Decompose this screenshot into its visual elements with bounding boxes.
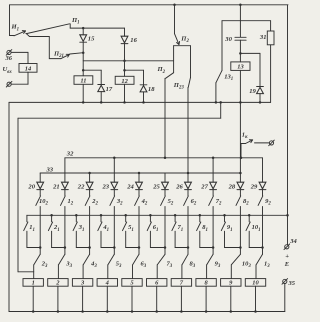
wire diode19 to rail bbox=[259, 94, 261, 103]
node bus33 junction bbox=[138, 172, 141, 175]
wire column 7 upper bbox=[187, 173, 189, 182]
switch 7-1 branch bbox=[174, 215, 176, 222]
wire column 5 from bus bbox=[138, 173, 140, 182]
switch 4-2 bbox=[135, 196, 140, 206]
bus 32 bbox=[65, 157, 263, 159]
switch 4-1 branch bbox=[100, 215, 102, 222]
wire 3-1 lower bbox=[75, 231, 77, 247]
switch 13-1 bbox=[221, 21, 223, 71]
wire diode 24 to switch bbox=[138, 190, 140, 196]
box 4 bbox=[97, 279, 117, 287]
wire column 7 to node bbox=[187, 207, 189, 248]
diode 27 bbox=[210, 182, 217, 189]
wire box 5 to bottom bus bbox=[131, 286, 133, 311]
switch 1-3 feed bbox=[262, 248, 264, 255]
node P21-diode15 junction bbox=[82, 51, 85, 54]
svg-text:18: 18 bbox=[148, 86, 155, 93]
bus 33 bbox=[40, 172, 240, 174]
svg-text:3: 3 bbox=[80, 280, 85, 287]
switch 8-1 bbox=[197, 222, 201, 231]
wire diode 22 to switch bbox=[89, 190, 91, 196]
wire channel1 return link bbox=[18, 271, 34, 273]
switch 3-1 bbox=[73, 222, 77, 231]
switch 7-3 feed bbox=[164, 248, 166, 255]
wire box 8 to bottom bus bbox=[205, 286, 207, 311]
switch 10-3 feed bbox=[239, 248, 241, 255]
wire 13-1 to rail bbox=[215, 83, 217, 103]
wire diode 20 to switch bbox=[39, 190, 41, 196]
wire column 5 to node bbox=[138, 207, 140, 248]
switch 9-1 branch bbox=[224, 215, 226, 222]
wire box 9 to bottom bus bbox=[230, 286, 232, 311]
wire to box 8 bbox=[206, 265, 208, 279]
svg-text:24: 24 bbox=[126, 183, 134, 190]
switch 10-1 bbox=[246, 222, 250, 231]
diode 15 bbox=[82, 28, 84, 35]
terminal Ik bbox=[269, 141, 273, 145]
switch 9-3 bbox=[207, 254, 213, 264]
wire common rail bbox=[9, 101, 271, 103]
node bus middle ch4 bbox=[100, 214, 103, 217]
switch 2-3 feed bbox=[39, 248, 41, 255]
switch P2 blade bbox=[175, 34, 180, 45]
svg-text:34: 34 bbox=[289, 238, 297, 245]
wire box 3 to bottom bus bbox=[82, 286, 84, 311]
wire P22 branch bbox=[173, 46, 175, 73]
switch 2-1 bbox=[48, 222, 52, 231]
switch 6-2 bbox=[184, 196, 189, 206]
wire P21 output bbox=[70, 53, 83, 54]
box 1 bbox=[23, 279, 43, 287]
wire to diode19 bbox=[240, 52, 260, 54]
svg-text:15: 15 bbox=[88, 36, 95, 43]
node bus middle ch5 bbox=[124, 214, 127, 217]
switch 10-2 bbox=[36, 196, 41, 206]
svg-text:33: 33 bbox=[46, 166, 54, 173]
wire column 8 to node bbox=[212, 207, 214, 248]
node bus middle ch7 bbox=[174, 214, 177, 217]
switch 1-2 bbox=[61, 196, 66, 206]
diode 23 bbox=[111, 182, 118, 189]
svg-text:28: 28 bbox=[228, 183, 236, 190]
node bus middle ch1 bbox=[26, 214, 28, 216]
wire column 1 to node bbox=[39, 207, 41, 248]
node bus middle ch10 bbox=[248, 214, 251, 217]
switch 3-2 bbox=[110, 196, 115, 206]
svg-text:29: 29 bbox=[250, 183, 258, 190]
switch 6-1 bbox=[147, 222, 151, 231]
wire diode 23 to switch bbox=[113, 190, 115, 196]
diode 17 bbox=[98, 85, 105, 91]
wire input top bbox=[11, 51, 28, 53]
switch 6-1 branch bbox=[149, 215, 151, 222]
wire column 6 to node bbox=[164, 207, 166, 248]
diode 22 bbox=[86, 182, 93, 189]
svg-text:35: 35 bbox=[288, 280, 296, 287]
node bus33 junction bbox=[88, 172, 91, 175]
node bus32 junction bbox=[113, 157, 116, 160]
switch 7-3 bbox=[157, 254, 165, 264]
box 3 bbox=[72, 279, 92, 287]
wire column 2 from bus bbox=[64, 158, 66, 182]
switch 3-1 branch bbox=[75, 215, 77, 222]
wire diode 27 to switch bbox=[212, 190, 214, 196]
wire 7-1 lower bbox=[174, 231, 176, 247]
switch P23 blade bbox=[188, 78, 190, 88]
svg-text:27: 27 bbox=[200, 183, 208, 190]
switch Ik bbox=[240, 144, 242, 158]
switch 9-2 bbox=[258, 196, 263, 206]
wire to box 6 bbox=[156, 265, 158, 279]
node box11 feed bbox=[82, 69, 85, 72]
box 10 bbox=[245, 279, 265, 287]
svg-text:30: 30 bbox=[224, 36, 232, 43]
svg-text:19: 19 bbox=[249, 88, 256, 95]
relay box 13 bbox=[231, 62, 250, 71]
wire 8-1 lower bbox=[199, 231, 201, 247]
svg-text:31: 31 bbox=[259, 34, 267, 41]
wire 5-1 lower bbox=[125, 231, 127, 247]
terminal input bottom bbox=[7, 82, 11, 86]
wire column 9 to node bbox=[239, 207, 241, 248]
switch 6-3 feed bbox=[138, 248, 140, 255]
switch 2-3 bbox=[34, 254, 40, 264]
node cap-30 tap on top line bbox=[239, 4, 242, 7]
node diode15 top bbox=[82, 27, 85, 30]
wire P23 to bus33 (column 7 feed) bbox=[187, 88, 189, 174]
svg-text:17: 17 bbox=[106, 86, 113, 93]
wire box11 to rail bbox=[82, 84, 84, 102]
diode 18 bbox=[140, 86, 147, 92]
wire diode 26 to switch bbox=[187, 190, 189, 196]
wire box 10 to bottom bus bbox=[255, 286, 257, 311]
svg-text:12: 12 bbox=[121, 78, 128, 85]
diode 29 bbox=[259, 182, 266, 189]
switch P1 blade bbox=[27, 24, 70, 34]
wire diode17 to rail bbox=[100, 92, 102, 103]
wire to box 7 bbox=[181, 265, 183, 279]
wire column 3 from bus bbox=[89, 173, 91, 182]
svg-text:25: 25 bbox=[152, 183, 160, 190]
node bus middle right bbox=[286, 214, 289, 217]
switch 1-1 bbox=[24, 222, 28, 231]
svg-text:26: 26 bbox=[175, 183, 183, 190]
terminal 35 bbox=[283, 279, 287, 283]
wire to box 4 bbox=[107, 265, 109, 279]
wire diode16 column bbox=[124, 44, 126, 77]
wire 2-1 lower bbox=[51, 231, 53, 247]
switch 8-1 branch bbox=[199, 215, 201, 222]
wire box12 to rail bbox=[124, 84, 126, 102]
diode 20 bbox=[37, 182, 44, 189]
diode 26 bbox=[185, 182, 192, 189]
bus bottom bbox=[9, 311, 285, 313]
wire diode 25 to switch bbox=[164, 190, 166, 196]
box 9 bbox=[221, 279, 241, 287]
box 6 bbox=[147, 279, 167, 287]
svg-text:10: 10 bbox=[252, 280, 259, 287]
node bus middle ch6 bbox=[149, 214, 152, 217]
wire input bottom bbox=[27, 72, 29, 84]
node bus middle ch8 bbox=[199, 214, 202, 217]
svg-text:4: 4 bbox=[105, 280, 110, 287]
wire box11 to diode17 bbox=[83, 69, 101, 71]
wire I1 output to P21 bbox=[26, 33, 61, 58]
box 2 bbox=[48, 279, 68, 287]
node bus33 junction bbox=[239, 172, 242, 175]
svg-text:Е: Е bbox=[284, 261, 290, 268]
wire Ik to terminal bbox=[255, 142, 270, 144]
wire box 4 to bottom bus bbox=[106, 286, 108, 311]
node bus33 junction bbox=[187, 172, 190, 175]
wire diode 29 to switch bbox=[262, 190, 264, 196]
wire column 10 from bus bbox=[262, 158, 264, 182]
switch 10-1 branch bbox=[248, 215, 250, 222]
wire top supply line bbox=[10, 4, 289, 6]
svg-text:1: 1 bbox=[32, 280, 35, 287]
wire box 2 to bottom bus bbox=[57, 286, 59, 311]
bus middle bbox=[27, 214, 288, 216]
switch 9-3 feed bbox=[212, 248, 214, 255]
box 7 bbox=[171, 279, 191, 287]
svg-text:11: 11 bbox=[80, 78, 86, 85]
wire box 7 to bottom bus bbox=[180, 286, 182, 311]
diode 25 bbox=[162, 182, 169, 189]
diode 16 bbox=[124, 28, 126, 36]
wire left border down to switch I1 bbox=[9, 5, 11, 36]
node box12 feed bbox=[123, 69, 126, 72]
wire diode 28 to switch bbox=[239, 190, 241, 196]
wire 13-1 top link bbox=[222, 20, 271, 22]
switch I1 bbox=[10, 35, 15, 37]
wire to box 9 bbox=[230, 265, 232, 279]
wire cross link bbox=[83, 60, 173, 62]
node switch-P2 tap on top line bbox=[173, 4, 176, 7]
diode 24 bbox=[136, 182, 143, 189]
svg-text:22: 22 bbox=[77, 183, 85, 190]
wire P1 output rail bbox=[70, 27, 124, 29]
switch 3-3 feed bbox=[64, 248, 66, 255]
wire column 10 to node bbox=[262, 207, 264, 248]
wire column 1 from bus bbox=[39, 173, 41, 182]
box 8 bbox=[196, 279, 216, 287]
wire P2 feed bbox=[174, 5, 176, 34]
wire to box 2 bbox=[57, 265, 59, 279]
svg-text:21: 21 bbox=[52, 183, 60, 190]
input box 14 bbox=[19, 64, 37, 73]
wire column 4 from bus bbox=[113, 158, 115, 182]
switch 10-3 bbox=[232, 254, 241, 264]
switch 8-3 bbox=[182, 254, 188, 264]
switch P22 blade bbox=[166, 73, 174, 79]
switch 5-3 feed bbox=[113, 248, 115, 255]
relay box 12 bbox=[115, 76, 134, 84]
capacitor 30 feed bbox=[239, 5, 241, 37]
wire column 9 upper bbox=[239, 173, 241, 182]
switch P21 blade bbox=[61, 54, 69, 58]
svg-text:2: 2 bbox=[55, 280, 60, 287]
wire diode 21 to switch bbox=[64, 190, 66, 196]
node bus32 junction bbox=[212, 157, 215, 160]
node diode16 link bbox=[123, 60, 126, 63]
switch 8-3 feed bbox=[187, 248, 189, 255]
svg-text:16: 16 bbox=[130, 37, 137, 44]
wire P1 fixed contact bbox=[69, 24, 71, 28]
wire 10-1 lower bbox=[248, 231, 250, 247]
wire 1-1 lower bbox=[26, 231, 28, 247]
wire 4-1 lower bbox=[100, 231, 102, 247]
switch 6-3 bbox=[133, 254, 139, 264]
wire diode18 to rail bbox=[143, 92, 145, 103]
wire to box 5 bbox=[132, 265, 134, 279]
wire column 4 to node bbox=[113, 207, 115, 248]
wire cap to box13 bbox=[239, 40, 241, 62]
diode 19 bbox=[257, 87, 264, 93]
wire box 1 to bottom bus bbox=[32, 286, 34, 311]
diode 21 bbox=[62, 182, 69, 189]
wire 6-1 lower bbox=[149, 231, 151, 247]
wire to box 1 bbox=[33, 265, 35, 279]
switch 5-3 bbox=[108, 254, 114, 264]
svg-text:14: 14 bbox=[25, 65, 32, 72]
wire to box 10 bbox=[255, 265, 257, 279]
node bus32 junction bbox=[164, 157, 167, 160]
node bus middle ch9 bbox=[223, 214, 226, 217]
switch 1-1 branch bbox=[26, 215, 28, 222]
wire diode15 column bbox=[82, 42, 84, 76]
svg-text:13: 13 bbox=[237, 64, 244, 71]
node bus middle ch3 bbox=[75, 214, 78, 217]
switch 4-1 bbox=[98, 222, 102, 231]
terminal 36 bbox=[7, 50, 11, 54]
svg-text:23: 23 bbox=[102, 183, 110, 190]
switch 8-2 bbox=[236, 196, 241, 206]
capacitor 30 bbox=[235, 36, 246, 38]
wire right border down to terminal 34 bbox=[287, 5, 289, 245]
switch 4-3 feed bbox=[89, 248, 91, 255]
wire box12 to diode18 bbox=[125, 69, 144, 71]
switch 4-3 bbox=[83, 254, 89, 264]
switch 2-1 branch bbox=[51, 215, 53, 222]
relay box 11 bbox=[74, 76, 93, 85]
wire to box 3 bbox=[82, 265, 84, 279]
wire P2 split bar bbox=[174, 45, 191, 47]
switch 5-1 bbox=[123, 222, 127, 231]
wire bottom bus to terminal 35 bbox=[284, 284, 286, 312]
switch 9-1 bbox=[221, 222, 225, 231]
wire P22 to bus32 (column 6 feed) bbox=[164, 78, 166, 158]
box 5 bbox=[122, 279, 142, 287]
switch 2-2 bbox=[85, 196, 90, 206]
svg-text:36: 36 bbox=[5, 55, 13, 62]
wire column 2 to node bbox=[64, 207, 66, 248]
wire column 3 to node bbox=[89, 207, 91, 248]
switch 7-1 bbox=[172, 222, 176, 231]
diode 28 bbox=[237, 182, 244, 189]
wire P23 branch bbox=[190, 46, 192, 78]
switch 3-3 bbox=[59, 254, 65, 264]
terminal 34 bbox=[285, 245, 289, 249]
wire box 6 to bottom bus bbox=[156, 286, 158, 311]
switch 5-1 branch bbox=[125, 215, 127, 222]
wire column 6 upper bbox=[164, 173, 166, 182]
svg-text:20: 20 bbox=[27, 183, 35, 190]
svg-text:+: + bbox=[285, 253, 289, 260]
wire 9-1 lower bbox=[224, 231, 226, 247]
resistor 31 bbox=[270, 21, 272, 31]
wire box13 to rail and bus33 (column 9 feed) bbox=[239, 70, 241, 102]
wire column 8 from bus bbox=[212, 158, 214, 182]
node bus middle ch2 bbox=[50, 214, 53, 217]
wire inner return rail bbox=[18, 117, 221, 119]
switch 1-3 bbox=[256, 254, 262, 264]
switch 5-2 bbox=[161, 196, 166, 206]
svg-text:32: 32 bbox=[66, 151, 74, 158]
switch 7-2 bbox=[209, 196, 214, 206]
